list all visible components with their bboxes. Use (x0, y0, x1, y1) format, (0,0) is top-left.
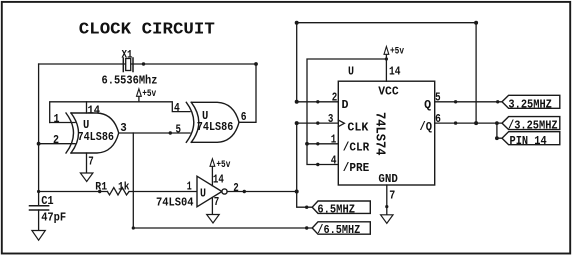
net tag 3.25MHZ (502, 95, 560, 108)
power +5v above XOR gates (137, 89, 142, 102)
svg-text:/PRE: /PRE (343, 161, 370, 175)
node junction /Q vertical (474, 121, 478, 125)
wire crystal top rail (39, 63, 256, 65)
svg-text:74LS86: 74LS86 (197, 120, 234, 134)
wire node A left rail (38, 64, 40, 206)
svg-text:2: 2 (53, 133, 59, 147)
svg-text:CLK: CLK (347, 120, 369, 134)
svg-text:U: U (348, 64, 354, 78)
svg-text:/3.25MHZ: /3.25MHZ (508, 119, 558, 133)
svg-text:4: 4 (331, 154, 337, 168)
wire CLK net vertical (297, 123, 313, 207)
pin 7 stub XOR1 (86, 153, 88, 173)
node corner dot crystal right (254, 62, 258, 66)
node pin dot /Q (454, 121, 457, 124)
svg-text:/CLR: /CLR (343, 140, 370, 154)
svg-text:D: D (342, 98, 349, 112)
svg-text:+5v: +5v (390, 47, 404, 58)
ground below inverter (207, 215, 220, 224)
wire +5v rail above XOR1 (50, 102, 190, 123)
power +5v above inverter (210, 159, 215, 167)
svg-text:3: 3 (328, 112, 334, 126)
net tag 6.5MHZ (312, 201, 370, 213)
svg-text:X1: X1 (122, 49, 133, 61)
node dot gnd stub (385, 205, 388, 208)
wire /Q up to top feedback (475, 23, 477, 123)
svg-text:74LS04: 74LS04 (156, 195, 194, 209)
node corner dot top right (474, 21, 478, 25)
svg-text:2: 2 (233, 181, 239, 195)
svg-text:1: 1 (54, 112, 60, 126)
svg-text:14: 14 (213, 172, 224, 186)
svg-text:GND: GND (378, 172, 398, 186)
wire inverter out to CLK rail (227, 191, 297, 193)
svg-text:1k: 1k (118, 182, 130, 194)
svg-text:1: 1 (331, 133, 337, 147)
ground below XOR1 (80, 173, 93, 182)
node corner dot D (295, 100, 299, 104)
node junction XOR1 pin2 rail (37, 142, 41, 146)
op XOR2 74LS86 (186, 102, 239, 142)
ground below flipflop (381, 215, 393, 224)
pin 14 stub XOR1 (86, 102, 88, 113)
wire /Q top feedback (297, 22, 476, 24)
wire XOR2 out to crystal (239, 64, 256, 122)
node pin dot Q (454, 100, 457, 103)
wire to /6.5MHZ tag (133, 227, 312, 229)
wire XOR1 pin1 (50, 122, 75, 124)
svg-text:74LS86: 74LS86 (78, 130, 115, 144)
svg-text:3.25MHZ: 3.25MHZ (508, 98, 552, 112)
svg-text:+5v: +5v (142, 89, 156, 100)
svg-text:6.5MHZ: 6.5MHZ (317, 203, 355, 216)
svg-text:74LS74: 74LS74 (372, 112, 388, 156)
node pin end dot R1 left (98, 190, 101, 193)
node junction +5v T (385, 57, 388, 60)
svg-text:Q: Q (424, 98, 431, 112)
wire XOR1 pin2 (39, 143, 75, 145)
power +5v above flipflop (384, 47, 389, 82)
svg-text:VCC: VCC (378, 84, 399, 98)
svg-text:PIN 14: PIN 14 (510, 134, 547, 148)
svg-text:1: 1 (187, 179, 192, 193)
wire +5v rail to FF presets (307, 59, 386, 144)
svg-text:7: 7 (214, 195, 220, 209)
svg-text:47pF: 47pF (41, 211, 66, 225)
wire /CLR into flipflop (307, 143, 338, 145)
wire branch to PIN 14 tag (497, 123, 502, 138)
node corner dot /6.5 wire (132, 226, 135, 229)
node junction rail R1 (37, 190, 40, 193)
svg-text:R1: R1 (95, 182, 107, 194)
node corner dot CLK (295, 121, 299, 125)
node pin dots FF left (316, 100, 319, 166)
node junction /3.25 branch (495, 121, 499, 125)
svg-text:7: 7 (88, 154, 94, 168)
svg-text:6.5536Mhz: 6.5536Mhz (102, 73, 158, 87)
op XOR1 74LS86 (66, 113, 119, 153)
node corner dot PIN14 branch (495, 136, 499, 140)
crystal X1 (123, 58, 133, 72)
net tag /3.25MHZ (502, 117, 560, 130)
wire /PRE into flipflop (307, 144, 338, 165)
wire XOR1 pin3 to XOR2 pin5 (119, 132, 190, 134)
svg-text:CLOCK CIRCUIT: CLOCK CIRCUIT (79, 20, 215, 39)
wire /Q to /3.25MHZ tag (435, 122, 502, 124)
node crystal right pin dot (142, 62, 145, 65)
svg-text:C1: C1 (41, 194, 54, 208)
svg-text:14: 14 (88, 103, 101, 117)
svg-text:/Q: /Q (420, 120, 433, 134)
inverter U 74LS04 (197, 176, 227, 207)
svg-text:U: U (200, 186, 206, 200)
svg-text:2: 2 (332, 91, 338, 105)
resistor R1 (39, 188, 197, 195)
svg-text:5: 5 (176, 122, 182, 136)
node pin end dot inverter out (243, 190, 246, 193)
wire CLK into flipflop (297, 122, 339, 124)
svg-text:14: 14 (389, 65, 401, 79)
node pin end dot XOR2 pin5 (169, 131, 172, 134)
node junction /CLR (305, 142, 309, 146)
node pin dot 6.5 tag (305, 206, 308, 209)
svg-text:/6.5MHZ: /6.5MHZ (317, 224, 360, 237)
node junction inverter out / clk rail (295, 190, 299, 194)
pin 7 stub inverter (211, 198, 213, 215)
ground below C1 (32, 231, 45, 241)
net tag /6.5MHZ (312, 222, 370, 234)
node pin dot /6.5 tag (305, 226, 308, 229)
svg-text:7: 7 (389, 188, 395, 202)
svg-text:+5v: +5v (216, 160, 230, 171)
node corner dot top left (295, 21, 299, 25)
pin 7 stub flipflop (386, 185, 388, 214)
flip-flop U 74LS74 (338, 81, 434, 185)
svg-text:6: 6 (241, 110, 247, 124)
capacitor C1 (30, 206, 49, 231)
net tag PIN 14 (502, 132, 560, 145)
pin 14 stub inverter (211, 166, 213, 186)
node pin dot 3.25 tag (496, 100, 499, 103)
clk triangle marker (338, 120, 344, 127)
wire Q to 3.25MHZ tag (435, 101, 502, 103)
wire feedback pin3 down to R1 row (132, 133, 134, 228)
svg-text:4: 4 (174, 101, 180, 115)
wire top feedback down to D (297, 23, 339, 102)
